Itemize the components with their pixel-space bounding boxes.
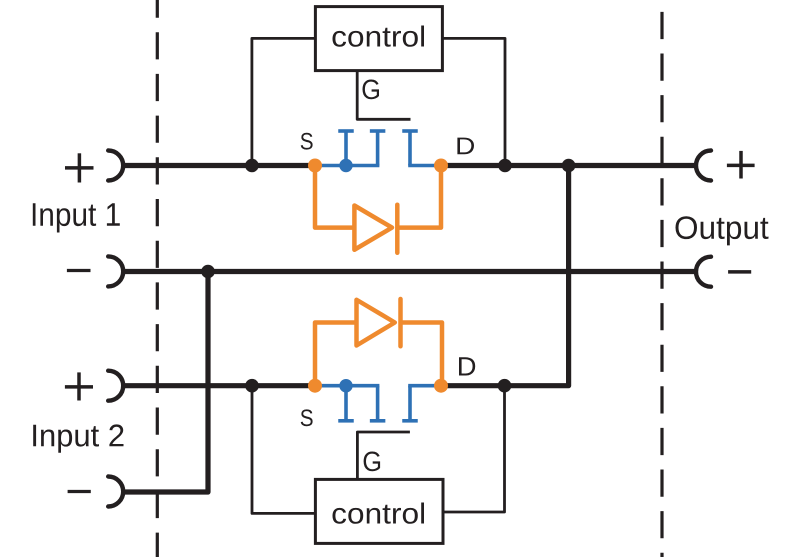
wire: Q1 drain-side blue rail segment (408, 164, 443, 168)
terminal: input2 plus socket (108, 371, 123, 401)
label: control (bottom) (333, 503, 425, 524)
wire: input2 minus rail with vertical up to minus rail (124, 272, 209, 493)
node: Q1 source (orange dot) (308, 159, 322, 173)
wire: input1 plus rail left segment (124, 163, 318, 168)
label: G (top gate) (363, 80, 380, 100)
wire: D2 anode loop (315, 323, 354, 386)
wire: top control left connection (252, 38, 316, 165)
Q2 channel segment 2 (body) (370, 419, 386, 423)
terminal: input2 minus socket (108, 477, 123, 507)
left boundary dashed line (156, 0, 159, 557)
D2 cathode bar (398, 299, 403, 346)
label: D (Q1 drain) (457, 138, 474, 155)
label: Input 1 (33, 203, 120, 232)
wire: D1 cathode loop (400, 166, 442, 228)
wire: plus rail right segment to output (439, 163, 696, 168)
wire: Q1 source-side blue rail segment (313, 164, 379, 168)
symbol: input1 plus sign (65, 153, 94, 182)
wire: input2 plus rail right segment with vertical up to plus rail (439, 166, 569, 386)
terminal: input1 minus socket (108, 256, 123, 286)
junction: top control right tap (498, 159, 512, 173)
wire: minus rail (input1 minus to output minus) (124, 269, 696, 274)
wire: D1 anode loop (315, 166, 352, 228)
D1 cathode bar (395, 205, 400, 253)
terminal: output minus socket (696, 257, 711, 287)
right boundary dashed line (660, 0, 663, 557)
node: Q1 body tie (blue dot) (339, 159, 352, 172)
diode D1 (Q1 body diode, orange) (315, 166, 441, 253)
control box U1 (top) (315, 7, 442, 71)
junction: bottom control left tap (245, 379, 259, 393)
control box U2 (bottom) (315, 479, 443, 543)
wire: Q2 drain-side blue rail segment (408, 384, 443, 388)
label: S (Q1 source) (301, 133, 313, 150)
wire: Q2 source-side blue rail segment (313, 384, 379, 388)
symbol: input2 plus sign (65, 372, 93, 400)
wire: top gate stub (357, 71, 410, 120)
junction: top control left tap (245, 159, 259, 173)
label: S (Q2 source) (301, 409, 313, 426)
transistor Q1 (top MOSFET, blue) (313, 131, 443, 166)
symbol: input2 minus sign (68, 490, 91, 493)
terminal: input1 plus socket (108, 151, 123, 181)
wire: D2 cathode loop (403, 323, 442, 386)
label: D (Q2 drain) (459, 357, 475, 375)
symbol: output plus sign (727, 151, 755, 179)
node: Q2 source (orange dot) (308, 379, 322, 393)
symbol: input1 minus sign (67, 269, 91, 272)
wire: top control right connection (442, 38, 505, 165)
Q1 channel segment 2 (body) (370, 129, 386, 133)
Q2 channel segment 1 (source) (338, 419, 354, 423)
label: G (bottom gate) (364, 452, 381, 472)
Q1 channel segment 1 (source) (338, 129, 354, 133)
wire: bottom control right connection (443, 386, 505, 512)
wire: input2 plus rail left segment (124, 383, 318, 388)
diode D2 (Q2 body diode, orange) (315, 299, 442, 386)
D2 triangle (357, 300, 395, 346)
terminal: output plus socket (696, 151, 711, 181)
D1 triangle (354, 206, 392, 250)
label: Output (676, 216, 769, 245)
symbol: output minus sign (728, 270, 751, 274)
junction: bottom control right tap (498, 379, 512, 393)
wire: bottom control left connection (252, 386, 315, 514)
node: Q2 drain (orange dot) (434, 379, 448, 393)
label: Input 2 (33, 424, 123, 452)
node: Q1 drain (orange dot) (434, 159, 448, 173)
Q1 channel segment 3 (drain) (402, 129, 418, 133)
junction: minus rail tee (201, 265, 215, 279)
transistor Q2 (bottom MOSFET, blue, mirrored) (313, 386, 443, 421)
junction: output plus tee (562, 159, 576, 173)
Q2 channel segment 3 (drain) (402, 419, 418, 423)
node: Q2 body tie (blue dot) (339, 379, 352, 392)
wire: bottom gate stub (357, 432, 410, 479)
label: control (top) (333, 26, 425, 47)
